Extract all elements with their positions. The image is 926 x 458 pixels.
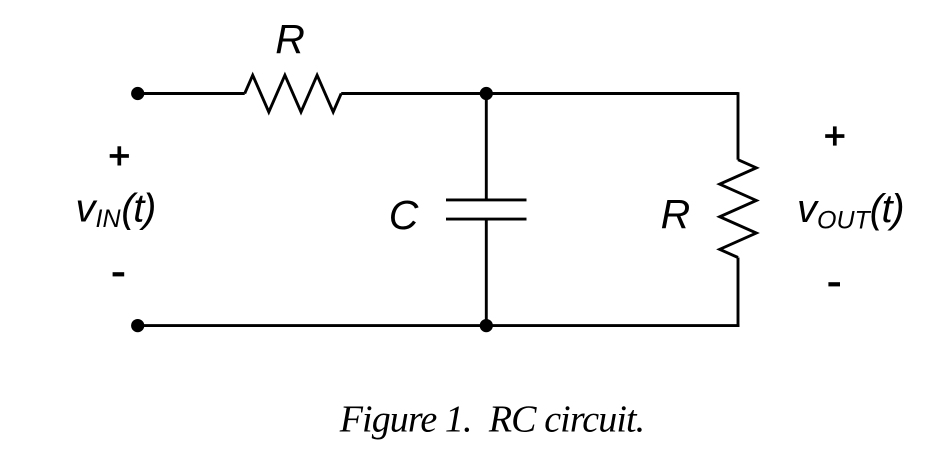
wire: top horizontal from resistor to top-right corner: [341, 92, 738, 95]
capacitor C bottom plate: [446, 218, 527, 221]
wire: right vertical lower segment: [737, 258, 740, 328]
wire: bottom horizontal: [138, 324, 740, 327]
wire: top-left horizontal from input terminal to resistor R (top): [138, 92, 245, 95]
resistor R (right, vertical zigzag): [720, 160, 757, 258]
svg-text:R: R: [661, 191, 691, 237]
wire: capacitor lower lead: [485, 219, 488, 326]
svg-text:C: C: [389, 192, 419, 238]
svg-text:Figure 1. RC circuit.: Figure 1. RC circuit.: [339, 399, 645, 441]
svg-text:R: R: [275, 16, 305, 62]
resistor R (top, zigzag): [245, 75, 342, 112]
node: input terminal bottom-left dot: [131, 319, 144, 332]
wire: right vertical upper segment: [737, 92, 740, 160]
wire: capacitor upper lead: [485, 94, 488, 201]
plus sign (output polarity): [825, 126, 844, 145]
minus sign (output polarity): [828, 282, 840, 286]
minus sign (input polarity): [113, 272, 125, 276]
node: top junction dot: [480, 87, 493, 100]
plus sign (input polarity): [110, 146, 129, 165]
capacitor C top plate: [446, 198, 527, 201]
node: input terminal top-left dot: [131, 87, 144, 100]
node: bottom junction dot: [480, 319, 493, 332]
